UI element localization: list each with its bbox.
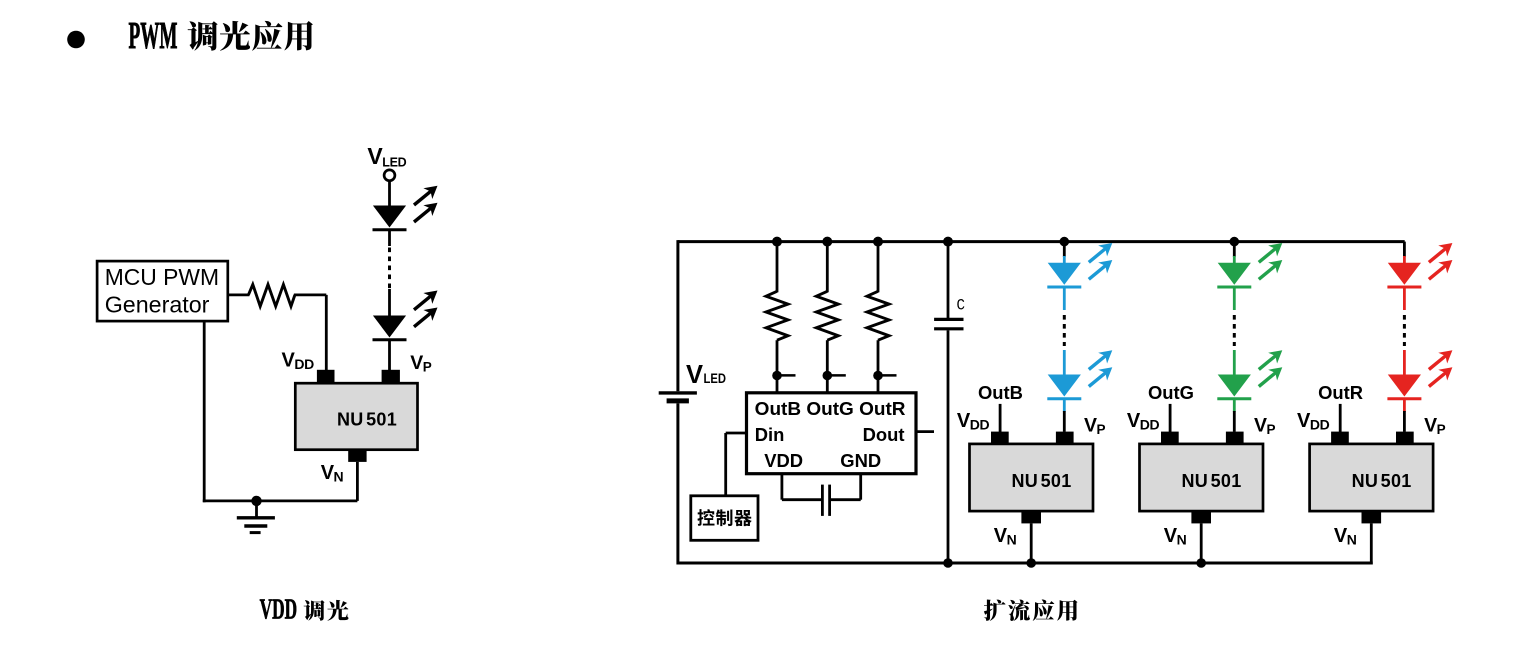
- svg-text:P: P: [423, 360, 432, 375]
- wire dotted section to LED D2: [388, 289, 391, 317]
- title text "PWM 调光应用": [129, 15, 313, 57]
- label VN (U5): [1334, 525, 1357, 548]
- svg-text:PWM: PWM: [129, 15, 178, 57]
- wire dotted to LED OutG2: [1233, 350, 1236, 376]
- pin VN of U4: [1191, 511, 1211, 523]
- LED OutR2: [1387, 375, 1421, 399]
- wire VN of U5 to bottom rail: [1370, 523, 1373, 564]
- node on top rail for R2 (OutB pull-up): [772, 237, 782, 247]
- svg-text:V: V: [1254, 414, 1267, 436]
- svg-text:V: V: [410, 352, 423, 374]
- wire top rail to R3 (OutG pull-up): [826, 242, 829, 293]
- label VN (U4): [1164, 525, 1187, 548]
- resistor R1: [248, 285, 295, 307]
- wire (dotted continuation OutR string): [1403, 315, 1406, 346]
- label VN (U3): [994, 525, 1017, 548]
- wire left rail lower (VLED-): [676, 403, 679, 564]
- svg-text:P: P: [1267, 422, 1276, 437]
- wire R4 (OutR pull-up) to controller pin: [877, 340, 880, 393]
- stub wire at node below R2 (OutB pull-up): [779, 374, 796, 377]
- wire OutB to VDD pin of U3: [999, 404, 1002, 432]
- label VP (U5): [1424, 414, 1446, 437]
- wire R2 (OutB pull-up) to controller pin: [776, 340, 779, 393]
- svg-text:DD: DD: [970, 417, 990, 433]
- wire LED OutG2 to VP pin: [1233, 399, 1236, 412]
- battery VLED: [659, 393, 697, 401]
- wire dotted to LED OutB2: [1063, 350, 1066, 376]
- resistor R3 (OutG pull-up): [816, 291, 838, 340]
- svg-text:Din: Din: [755, 424, 785, 445]
- svg-text:P: P: [1097, 422, 1106, 437]
- junction node capacitor C at bottom rail: [943, 558, 953, 568]
- LED OutR1 light arrows: [1424, 238, 1456, 285]
- node VLED (left circuit) label: [367, 143, 406, 170]
- wire (dotted continuation OutG string): [1233, 315, 1236, 346]
- junction node below R4 (OutR pull-up): [873, 371, 883, 381]
- svg-text:VDD: VDD: [764, 450, 803, 471]
- junction node VN U3 at bottom rail: [1026, 558, 1036, 568]
- svg-text:V: V: [1424, 414, 1437, 436]
- label VDD (U4): [1127, 410, 1160, 433]
- label VDD (U3): [957, 410, 990, 433]
- label VLED (battery): [686, 361, 726, 389]
- pin VN of U5: [1362, 511, 1382, 523]
- terminal VLED (open circle): [384, 170, 395, 181]
- junction node VN U4 at bottom rail: [1196, 558, 1206, 568]
- node on top rail for capacitor C: [943, 237, 953, 247]
- label VDD (U5): [1297, 410, 1330, 433]
- node on top rail for R4 (OutR pull-up): [873, 237, 883, 247]
- wire VDD of U2 down: [781, 474, 784, 500]
- chip U4 NU501: [1140, 444, 1264, 511]
- wire LED OutB1 down: [1063, 287, 1066, 310]
- label VP (U4): [1254, 414, 1276, 437]
- junction node at ground: [251, 496, 261, 506]
- wire capacitor C to bottom rail: [947, 330, 950, 563]
- ground symbol: [237, 501, 275, 533]
- wire D1 to dotted section: [388, 230, 391, 246]
- svg-text:N: N: [1007, 532, 1017, 548]
- svg-text:NU501: NU501: [1011, 471, 1071, 491]
- LED OutG2: [1217, 375, 1251, 399]
- svg-text:LED: LED: [382, 156, 406, 170]
- wire MCU box bottom down: [203, 322, 206, 502]
- controller chip U2: [747, 393, 917, 474]
- pin VP of U3: [1056, 432, 1074, 445]
- wire LED OutG1 down: [1233, 287, 1236, 310]
- wire top rail to LED OutR1: [1403, 242, 1406, 257]
- wire OutR to VDD pin of U5: [1339, 404, 1342, 432]
- wire top rail to R2 (OutB pull-up): [776, 242, 779, 293]
- svg-text:V: V: [1084, 414, 1097, 436]
- svg-text:DD: DD: [1140, 417, 1160, 433]
- controller box 控制器: [691, 496, 758, 541]
- svg-text:C: C: [957, 297, 966, 315]
- wire top rail to R4 (OutR pull-up): [877, 242, 880, 293]
- svg-text:V: V: [367, 143, 383, 169]
- pin VP of U1: [382, 370, 400, 384]
- pin VN of U3: [1021, 511, 1041, 523]
- LED OutG1: [1217, 263, 1251, 287]
- wire top rail: [678, 240, 1405, 243]
- resistor R4 (OutR pull-up): [867, 291, 889, 340]
- pin VN of U1: [348, 449, 366, 462]
- chip U5 NU501: [1310, 444, 1434, 511]
- svg-text:DD: DD: [294, 356, 314, 372]
- wire LED OutR1 down: [1403, 287, 1406, 310]
- wire LED OutB2 to VP pin: [1063, 399, 1066, 412]
- label VP (U3): [1084, 414, 1106, 437]
- wire LED OutR2 to VP pin: [1403, 399, 1406, 412]
- LED D2: [373, 316, 407, 340]
- LED OutG2 light arrows: [1254, 345, 1286, 392]
- MCU PWM Generator box: [97, 261, 228, 321]
- wire top rail to LED OutB1: [1063, 242, 1066, 257]
- label VP (U1): [410, 352, 432, 375]
- node on top rail for OutG LED string: [1230, 237, 1240, 247]
- svg-text:VDD: VDD: [260, 594, 298, 625]
- resistor R2 (OutB pull-up): [766, 291, 788, 340]
- svg-text:DD: DD: [1310, 417, 1330, 433]
- svg-text:OutB OutG OutR: OutB OutG OutR: [755, 398, 906, 419]
- wire MCU output to resistor R1: [228, 293, 250, 296]
- junction node below R2 (OutB pull-up): [772, 371, 782, 381]
- wire dotted to LED OutR2: [1403, 350, 1406, 376]
- svg-text:GND: GND: [840, 450, 881, 471]
- label VDD (U1): [282, 349, 315, 372]
- svg-text:N: N: [1347, 532, 1357, 548]
- svg-text:OutB: OutB: [978, 382, 1023, 403]
- LED D1: [373, 206, 407, 230]
- svg-text:NU501: NU501: [337, 410, 397, 430]
- chip U1 NU501: [295, 383, 417, 450]
- wire OutG to VDD pin of U4: [1169, 404, 1172, 432]
- LED OutR2 light arrows: [1424, 345, 1456, 392]
- stub wire at node below R4 (OutR pull-up): [880, 374, 897, 377]
- svg-text:NU501: NU501: [1352, 471, 1412, 491]
- svg-text:P: P: [1437, 422, 1446, 437]
- pin VDD of U5: [1331, 432, 1349, 445]
- svg-text:NU501: NU501: [1181, 471, 1241, 491]
- bullet point: [67, 31, 85, 49]
- wire left rail upper (VLED+): [676, 240, 679, 391]
- svg-text:OutG: OutG: [1148, 382, 1194, 403]
- LED OutB2: [1047, 375, 1081, 399]
- label VN (U1): [321, 462, 344, 485]
- capacitor C: [934, 319, 963, 328]
- LED OutB2 light arrows: [1084, 345, 1116, 392]
- wire bottom (MCU to VN): [203, 499, 358, 502]
- pin VP of U4: [1226, 432, 1244, 445]
- wire Dout stub: [916, 430, 934, 433]
- LED OutB1 light arrows: [1084, 238, 1116, 285]
- pin VDD of U3: [991, 432, 1009, 445]
- svg-text:MCU PWM: MCU PWM: [105, 264, 219, 290]
- junction node below R3 (OutG pull-up): [823, 371, 833, 381]
- LED D2 light arrows: [410, 285, 442, 332]
- pin VDD of U4: [1161, 432, 1179, 445]
- wire R3 (OutG pull-up) to controller pin: [826, 340, 829, 393]
- chip U3 NU501: [970, 444, 1094, 511]
- wire Din to controller box: [726, 432, 747, 435]
- LED OutG1 light arrows: [1254, 238, 1286, 285]
- wire (dotted continuation of LED string): [388, 248, 391, 290]
- stub wire at node below R3 (OutG pull-up): [829, 374, 846, 377]
- svg-text:V: V: [686, 361, 703, 389]
- node on top rail for R3 (OutG pull-up): [822, 237, 832, 247]
- LED D1 light arrows: [410, 180, 442, 227]
- LED OutR1: [1387, 263, 1421, 287]
- svg-text:N: N: [1177, 532, 1187, 548]
- capacitor C2 (decoupling): [822, 485, 829, 516]
- caption "扩流应用": [984, 600, 1078, 621]
- pin VP of U5: [1396, 432, 1414, 445]
- wire VN of U3 to bottom rail: [1030, 523, 1033, 564]
- svg-text:LED: LED: [704, 371, 727, 386]
- wire bottom rail: [678, 562, 1373, 565]
- caption "VDD 调光": [260, 594, 349, 625]
- wire VN pin down: [356, 462, 359, 501]
- wire top rail to capacitor C: [947, 242, 950, 318]
- wire top rail to LED OutG1: [1233, 242, 1236, 257]
- wire VN of U4 to bottom rail: [1200, 523, 1203, 564]
- wire GND of U2 down: [859, 474, 862, 500]
- svg-text:Dout: Dout: [863, 424, 905, 445]
- wire D2 to VP pin: [388, 340, 391, 371]
- svg-text:OutR: OutR: [1318, 382, 1363, 403]
- node on top rail for OutB LED string: [1060, 237, 1070, 247]
- wire resistor R1 to VDD pin of U1: [294, 293, 326, 296]
- svg-text:Generator: Generator: [105, 291, 210, 317]
- wire (dotted continuation OutB string): [1063, 315, 1066, 346]
- wire VLED to LED D1: [388, 180, 391, 206]
- svg-text:N: N: [334, 469, 344, 485]
- LED OutB1: [1047, 263, 1081, 287]
- pin VDD of U1: [317, 370, 335, 384]
